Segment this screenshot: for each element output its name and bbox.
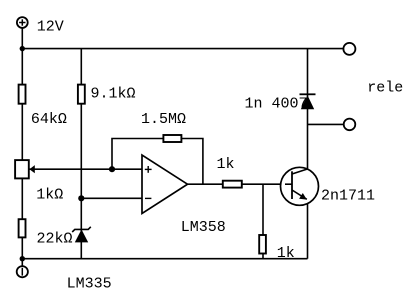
svg-text:rele: rele bbox=[367, 80, 403, 97]
svg-text:LM358: LM358 bbox=[181, 219, 226, 236]
svg-text:LM335: LM335 bbox=[67, 276, 112, 293]
svg-text:12V: 12V bbox=[37, 18, 64, 35]
svg-text:9.1kΩ: 9.1kΩ bbox=[91, 85, 136, 102]
svg-text:1k: 1k bbox=[277, 245, 295, 262]
svg-text:1.5MΩ: 1.5MΩ bbox=[141, 111, 186, 128]
svg-text:64kΩ: 64kΩ bbox=[31, 111, 67, 128]
svg-text:1n 4007: 1n 4007 bbox=[245, 96, 308, 113]
svg-text:22kΩ: 22kΩ bbox=[37, 230, 73, 247]
svg-text:1k: 1k bbox=[217, 156, 235, 173]
svg-text:1kΩ: 1kΩ bbox=[36, 186, 63, 203]
svg-text:2n1711: 2n1711 bbox=[321, 188, 375, 205]
